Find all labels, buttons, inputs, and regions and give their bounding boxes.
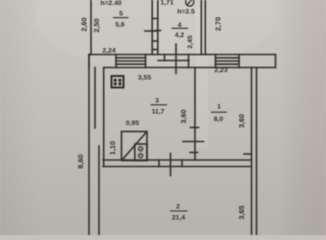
svg-text:3,60: 3,60 xyxy=(237,114,246,128)
wall: room 4 right (double) xyxy=(201,0,205,55)
svg-text:1,71: 1,71 xyxy=(160,0,173,7)
wall band between hall and room 2 xyxy=(103,160,252,167)
dimension tick on right wall xyxy=(244,153,252,155)
tick left of duct wall xyxy=(145,30,152,32)
svg-text:2: 2 xyxy=(176,204,180,211)
svg-text:3,60: 3,60 xyxy=(179,110,188,124)
svg-text:0,95: 0,95 xyxy=(126,120,139,127)
gas symbol circle top xyxy=(186,0,194,6)
right outer wall (double) xyxy=(252,68,257,236)
window W2 in top wall xyxy=(216,55,240,68)
svg-text:h=2.40: h=2.40 xyxy=(100,0,122,7)
underline room 3 xyxy=(151,104,168,106)
svg-text:1,10: 1,10 xyxy=(108,141,117,155)
svg-text:1: 1 xyxy=(217,104,221,111)
svg-text:8,0: 8,0 xyxy=(214,116,224,123)
svg-text:2,24: 2,24 xyxy=(102,48,115,55)
door jamb line crossing bottom band xyxy=(170,154,172,176)
stove symbol xyxy=(112,76,124,88)
tick on partition lower xyxy=(190,152,198,154)
window W1 in top wall xyxy=(116,55,146,68)
underline room 5 xyxy=(113,17,129,19)
underline room 1 xyxy=(211,111,227,113)
svg-text:2,70: 2,70 xyxy=(214,17,223,31)
tick on room 4 left wall xyxy=(156,30,161,32)
bath unit circles xyxy=(138,147,142,158)
svg-text:5,6: 5,6 xyxy=(115,22,125,29)
svg-text:8,60: 8,60 xyxy=(76,154,85,168)
svg-text:3,55: 3,55 xyxy=(138,75,151,82)
svg-text:3: 3 xyxy=(155,98,159,105)
underline room 2 xyxy=(170,210,188,212)
svg-text:2,50: 2,50 xyxy=(92,19,101,33)
svg-text:h=2.5: h=2.5 xyxy=(177,9,195,16)
svg-text:2,60: 2,60 xyxy=(80,18,89,32)
door lintel on partition xyxy=(183,141,204,143)
tick on partition upper xyxy=(191,127,199,129)
wall: room 5 left (outer) xyxy=(90,0,92,55)
partition wall between rooms 3 and 1 xyxy=(194,68,196,161)
bath unit box xyxy=(122,132,148,161)
svg-text:5: 5 xyxy=(119,11,123,18)
svg-text:2,23: 2,23 xyxy=(214,67,227,74)
door tick in room 4 floor xyxy=(175,44,177,74)
light sheen inside rooms 4 and 1 xyxy=(196,8,208,148)
svg-text:21,4: 21,4 xyxy=(172,215,185,222)
stove burners xyxy=(114,79,122,86)
vent duct wall between rooms 5 and 4 xyxy=(152,0,158,54)
svg-text:3,65: 3,65 xyxy=(237,206,246,220)
svg-text:4,2: 4,2 xyxy=(175,32,185,39)
underline room 4 xyxy=(172,27,189,29)
svg-text:2,45: 2,45 xyxy=(187,35,194,48)
top outer wall band xyxy=(89,55,276,68)
left outer wall (triple above, double below) xyxy=(89,55,104,236)
svg-text:11,7: 11,7 xyxy=(152,109,165,116)
